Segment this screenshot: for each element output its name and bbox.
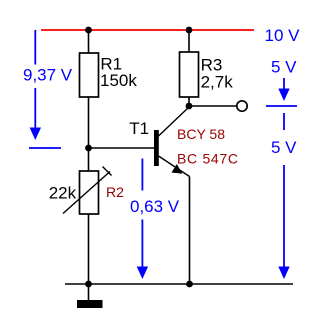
svg-text:22k: 22k	[49, 184, 77, 203]
ground	[77, 300, 103, 308]
emitter arrowhead	[171, 164, 182, 174]
arrowhead 9,37 V	[30, 128, 41, 141]
wire: emitter of T1	[159, 156, 190, 177]
arrowhead 5 V upper	[278, 89, 289, 102]
arrowhead 0,63 V	[137, 267, 148, 280]
adjustment tick of R2	[103, 167, 112, 176]
wire: rail to R1 top	[88, 30, 90, 53]
svg-text:BCY 58: BCY 58	[177, 126, 225, 142]
svg-text:T1: T1	[129, 119, 149, 138]
resistor R3	[180, 52, 199, 97]
transistor T1 base bar	[154, 130, 159, 166]
wire: +10V supply rail (red)	[41, 29, 254, 31]
resistor R2 (adjustable)	[80, 171, 99, 214]
wire: bottom ground rail	[65, 283, 293, 285]
reference level line at output	[266, 105, 297, 107]
node: junction of rail and R3	[186, 27, 193, 34]
svg-text:5 V: 5 V	[271, 58, 297, 77]
wire: collector of T1	[159, 107, 190, 136]
node: junction of rail and R1	[85, 27, 92, 34]
adjustment arrow of R2	[63, 172, 110, 214]
node: base junction	[85, 145, 92, 152]
wire: R3 bottom to output node	[188, 97, 190, 106]
reference level line at base	[29, 147, 61, 149]
measurement arrow 0,63 V upper segment	[141, 159, 143, 191]
svg-text:10 V: 10 V	[265, 26, 301, 45]
svg-text:R2: R2	[106, 184, 124, 200]
wire: rail to R3 top	[188, 30, 190, 52]
svg-text:150k: 150k	[100, 71, 137, 90]
measurement arrow 5 V lower first segment	[283, 113, 285, 130]
wire: emitter to ground rail	[189, 177, 191, 285]
svg-text:9,37 V: 9,37 V	[23, 66, 73, 85]
wire: R2 bottom to ground	[88, 214, 90, 300]
resistor R1	[80, 53, 99, 97]
measurement arrow 5 V lower second segment	[283, 165, 285, 267]
wire: base node to transistor base	[89, 147, 155, 149]
wire: output node to terminal	[189, 105, 237, 107]
output terminal circle	[237, 101, 247, 111]
arrowhead 5 V lower	[278, 267, 289, 280]
svg-text:5 V: 5 V	[271, 138, 297, 157]
svg-text:0,63 V: 0,63 V	[130, 197, 180, 216]
wire: R1 bottom to R2 top (through base node)	[88, 97, 90, 171]
measurement arrow 9,37 V lower segment	[34, 88, 36, 128]
node: emitter-ground junction	[186, 281, 193, 288]
node: ground junction	[85, 281, 92, 288]
measurement arrow 5 V upper segment	[283, 78, 285, 89]
svg-text:2,7k: 2,7k	[201, 73, 234, 92]
measurement arrow 0,63 V lower segment	[141, 220, 143, 268]
node: collector/output junction	[186, 103, 193, 110]
svg-text:BC 547C: BC 547C	[177, 150, 239, 166]
measurement arrow 9,37 V upper segment	[34, 30, 36, 65]
